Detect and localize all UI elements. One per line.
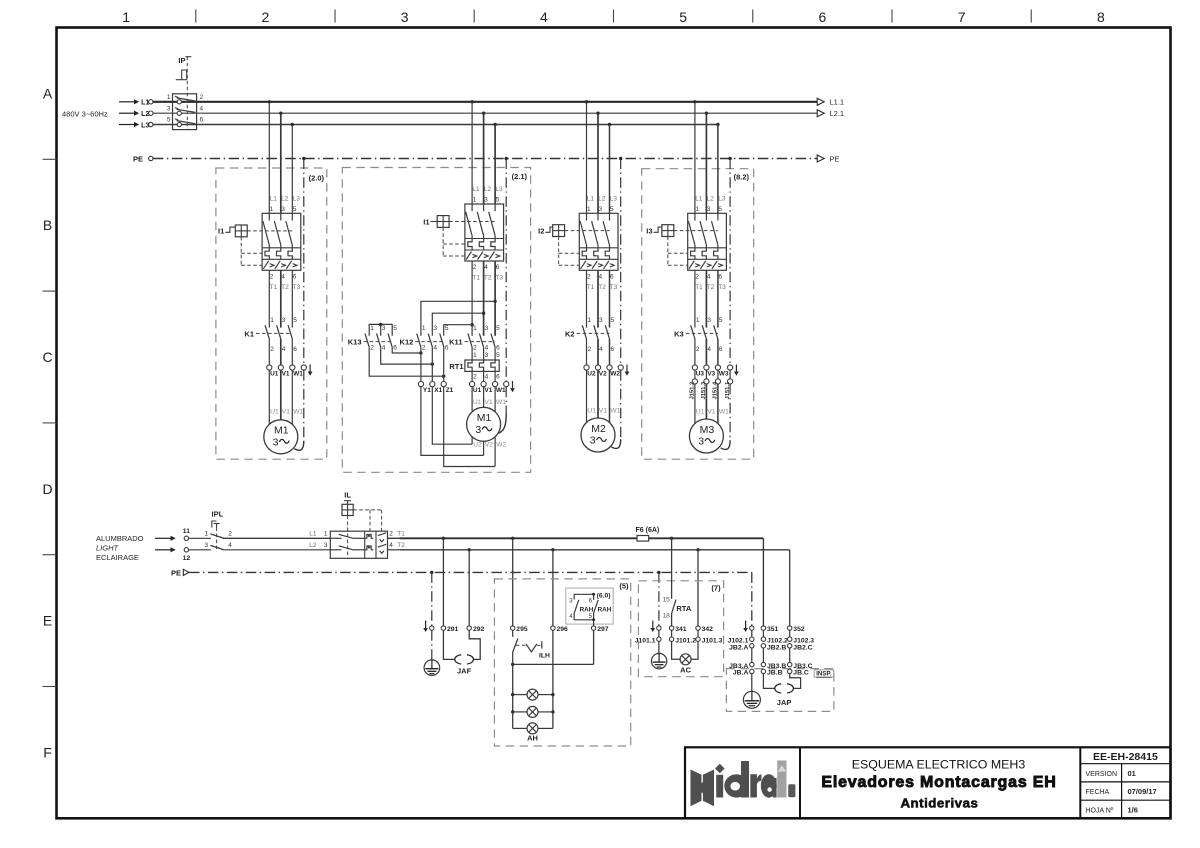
svg-text:2: 2 (389, 530, 393, 537)
svg-text:I3: I3 (646, 227, 652, 236)
svg-text:1: 1 (696, 317, 700, 324)
svg-text:3: 3 (282, 317, 286, 324)
node T2 to K12 pole2 (482, 312, 485, 315)
svg-text:ALUMBRADO: ALUMBRADO (96, 534, 144, 543)
svg-text:JB.B: JB.B (767, 670, 783, 677)
terminal J101.1 (657, 637, 661, 641)
svg-text:L3: L3 (718, 195, 726, 202)
svg-text:4: 4 (282, 346, 286, 353)
breaker I3 magnetic elements (689, 261, 723, 269)
breaker I3 terminal labels (695, 195, 726, 290)
svg-text:(6.0): (6.0) (597, 592, 611, 599)
svg-text:296: 296 (557, 626, 569, 633)
earth arrow branch4 (734, 365, 739, 376)
terminal 341 (669, 626, 673, 630)
PE triangle arrow lighting (183, 569, 189, 575)
labels U2 V2 W2 branch3 (587, 371, 620, 378)
terminal earth JAF (430, 626, 434, 630)
disconnect switch IP box (173, 94, 197, 130)
svg-text:6: 6 (611, 346, 615, 353)
wire PE to motor M2 frame (611, 370, 621, 448)
svg-text:1: 1 (270, 206, 274, 213)
svg-text:L3: L3 (141, 122, 149, 129)
svg-text:351: 351 (767, 626, 779, 633)
terminal L1 supply (149, 100, 153, 104)
contactor K13 label and link (348, 338, 392, 347)
svg-text:480V 3~60Hz: 480V 3~60Hz (62, 110, 108, 119)
breaker I2 thermal elements (582, 248, 609, 259)
wires J151 to motor M3 (695, 384, 718, 424)
svg-text:JB.C: JB.C (793, 670, 809, 677)
svg-text:K1: K1 (244, 329, 254, 338)
node K12 pole1 lower (419, 351, 422, 354)
svg-text:2: 2 (587, 273, 591, 280)
terminal PE supply (149, 156, 153, 160)
svg-text:4: 4 (200, 105, 204, 112)
breaker I3 handle link dashes (668, 231, 718, 266)
node L1 tap branch 3 (585, 100, 588, 103)
svg-text:6: 6 (496, 264, 500, 271)
RT1 pin labels (473, 352, 500, 381)
terminal V3 branch4 (704, 365, 709, 370)
svg-text:3: 3 (433, 325, 437, 332)
node K12 pole3 lower (442, 375, 445, 378)
svg-text:5: 5 (718, 206, 722, 213)
title table values (1128, 769, 1157, 815)
svg-text:(2.0): (2.0) (309, 174, 325, 183)
wire L1 to breaker I1 (268, 102, 270, 214)
switch ILH contact (513, 630, 518, 664)
terminal W3 branch4 (715, 365, 720, 370)
svg-text:2: 2 (422, 344, 426, 351)
terminal JB2.A (750, 644, 754, 648)
svg-text:W2: W2 (496, 442, 506, 449)
input arrow terminal 12 (155, 547, 176, 552)
svg-text:L1: L1 (141, 100, 149, 107)
wires columns rows3-4 (752, 648, 790, 662)
svg-text:1: 1 (205, 530, 209, 537)
terminal Z1 (441, 382, 446, 387)
svg-text:5: 5 (393, 325, 397, 332)
wire IPL to IL L2 (223, 549, 330, 551)
wire L3 to breaker I3 (717, 125, 719, 214)
svg-text:(8.2): (8.2) (734, 173, 750, 182)
svg-text:8: 8 (1097, 9, 1105, 25)
earth arrow terminal J101.1 (650, 621, 655, 633)
switch ILH actuator (516, 641, 550, 659)
wire PE to motor M1 branch2 frame (498, 387, 507, 434)
svg-text:JB2.B: JB2.B (767, 644, 786, 651)
wire T2 breaker to K1 (280, 270, 282, 327)
wire L2 bus (153, 112, 817, 114)
svg-text:V2: V2 (485, 442, 494, 449)
wire to earth symbol JAF dash-dot (431, 630, 433, 660)
contactor K1 contacts (265, 325, 292, 339)
top ruler ticks (196, 10, 1031, 23)
svg-text:U1: U1 (270, 409, 279, 416)
svg-text:342: 342 (702, 626, 714, 633)
svg-text:T2: T2 (281, 284, 289, 291)
svg-text:2: 2 (262, 9, 270, 25)
svg-text:V1: V1 (599, 408, 608, 415)
node L2 tap branch 3 (596, 112, 599, 115)
svg-text:6: 6 (200, 117, 204, 124)
wire box7 earth drop dash-dot (658, 572, 660, 625)
svg-text:3: 3 (324, 542, 328, 549)
wire 12 to IPL (189, 549, 211, 551)
left ruler letters A-F (42, 85, 52, 760)
svg-text:RAH: RAH (598, 606, 612, 613)
contactor K11 pin labels (473, 325, 500, 351)
box (5) dashed (494, 579, 630, 746)
earth arrow terminal JAF (423, 621, 428, 633)
motor M3 3~ (689, 419, 723, 453)
wire PE drop branch1 dash-dot (303, 159, 305, 365)
terminal JB.A (750, 669, 754, 673)
breaker I1 branch2 handle (431, 216, 450, 228)
wire terminal V1 to motor M1 (280, 370, 282, 420)
wire T2 down branch2 (483, 261, 485, 336)
svg-text:2: 2 (695, 273, 699, 280)
node L2 tap branch 1 (279, 112, 282, 115)
svg-text:3: 3 (485, 325, 489, 332)
wire L3 bus (153, 124, 718, 126)
svg-text:3: 3 (707, 206, 711, 213)
wire L3 to breaker I2 (609, 125, 611, 214)
node L1 tap branch 4 (693, 100, 696, 103)
svg-text:L2: L2 (281, 195, 289, 202)
svg-text:2: 2 (270, 346, 274, 353)
terminal 295 (511, 626, 515, 630)
svg-text:K13: K13 (348, 338, 362, 347)
svg-text:T1: T1 (587, 284, 595, 291)
svg-text:3: 3 (599, 317, 603, 324)
wire T3 jog to K12 pole1 (421, 301, 495, 336)
node K12 pole2 lower (431, 362, 434, 365)
svg-text:6: 6 (393, 344, 397, 351)
input arrow L3 (119, 122, 149, 129)
thermal relay RT1 elements (468, 360, 495, 371)
terminal JB.B (761, 669, 765, 673)
wire K13 pole3 to K12 pole1 (392, 347, 421, 353)
svg-text:B: B (43, 217, 52, 233)
terminal JB2.B (761, 644, 765, 648)
breaker I1 pole contacts (263, 213, 292, 248)
IL test elements (365, 533, 387, 554)
breaker I2 box (579, 213, 618, 270)
svg-text:3: 3 (273, 436, 279, 448)
svg-text:3: 3 (205, 542, 209, 549)
wire 291 drop (442, 538, 444, 625)
lamp AC (672, 641, 698, 659)
svg-text:M3: M3 (700, 424, 715, 436)
wire T3 breaker I2 to K2 (609, 270, 611, 327)
svg-text:T2: T2 (484, 275, 492, 282)
node L3 tap branch 1 (291, 123, 294, 126)
svg-text:T3: T3 (718, 284, 726, 291)
svg-text:T1: T1 (270, 284, 278, 291)
wire 342 drop (697, 550, 699, 626)
svg-text:LIGHT: LIGHT (96, 543, 120, 552)
terminal 12 (184, 548, 188, 552)
svg-text:2: 2 (696, 346, 700, 353)
svg-text:5: 5 (445, 325, 449, 332)
contactor K2 label and link (565, 329, 609, 338)
labels motor terminals U2 V2 W2 branch2 (473, 442, 506, 449)
labels Y1 X1 Z1 (423, 387, 454, 394)
svg-text:E: E (43, 613, 52, 629)
wire L2 to breaker I1 branch2 (483, 113, 485, 204)
svg-text:2: 2 (473, 264, 477, 271)
terminal 352 (788, 626, 792, 630)
svg-text:01: 01 (1128, 769, 1136, 778)
IL output wires (388, 538, 401, 550)
contactor K12 label and link (400, 338, 444, 347)
svg-text:W1: W1 (496, 399, 506, 406)
terminal V1 branch2 (481, 382, 486, 387)
terminal J102.1 (750, 637, 754, 641)
svg-text:INSP.: INSP. (816, 671, 832, 678)
svg-text:2: 2 (270, 273, 274, 280)
svg-text:1: 1 (422, 325, 426, 332)
svg-text:RT1: RT1 (449, 362, 463, 371)
svg-text:1: 1 (370, 325, 374, 332)
terminal U1 branch1 (267, 365, 272, 370)
breaker I2 pole contacts (580, 213, 609, 248)
node PE tap branch4 (728, 157, 731, 160)
svg-text:7: 7 (958, 9, 966, 25)
svg-text:IL: IL (344, 491, 351, 500)
svg-text:07/09/17: 07/09/17 (1128, 787, 1157, 796)
contactor K13 contacts (365, 334, 392, 348)
node L3 tap branch 3 (608, 123, 611, 126)
svg-text:T3: T3 (495, 275, 503, 282)
motor M1 3~ (264, 420, 298, 454)
wires column pairs row2 (752, 630, 790, 637)
wire K1 pole3 to terminal W1 (291, 339, 293, 365)
terminal J151.3 (704, 379, 709, 384)
motor M1 3~ (467, 407, 501, 441)
input arrow terminal 11 (155, 536, 176, 541)
arrow L1.1 outgoing (817, 98, 844, 107)
RAH left contact (569, 598, 593, 620)
labels U1 V1 W1 branch2 (473, 387, 506, 394)
svg-text:ILH: ILH (539, 653, 550, 660)
svg-text:L3: L3 (293, 195, 301, 202)
wire JB.A to earth symbol (751, 674, 753, 692)
IP link dashed line (186, 57, 188, 130)
svg-text:4: 4 (228, 542, 232, 549)
wire PE drop branch2 dash-dot (505, 159, 507, 382)
input arrow L1 (119, 99, 149, 106)
wire motor W2 to Z1 (444, 387, 495, 467)
svg-text:3: 3 (484, 197, 488, 204)
svg-text:L2.1: L2.1 (830, 109, 845, 118)
svg-text:V3: V3 (707, 371, 715, 378)
breaker I1 magnetic elements (263, 261, 297, 269)
wire L1 to breaker I2 (586, 102, 588, 214)
wire K12 pole3 to terminal Z1 (443, 347, 445, 381)
svg-text:I1: I1 (218, 227, 224, 236)
terminal 296 (551, 626, 555, 630)
wires K2 to terminals (587, 339, 610, 365)
svg-text:JAF: JAF (457, 666, 472, 675)
wire T2 bus (400, 550, 790, 626)
wire K1 pole1 to terminal U1 (268, 339, 270, 365)
svg-text:W1: W1 (719, 408, 729, 415)
svg-text:2: 2 (370, 344, 374, 351)
wire T2 breaker I2 to K2 (597, 270, 599, 327)
svg-text:(7): (7) (711, 583, 721, 592)
wire 292 to socket JAF (469, 630, 480, 659)
svg-text:Elevadores Montacargas EH: Elevadores Montacargas EH (821, 774, 1056, 791)
breaker I3 thermal elements (691, 248, 718, 259)
svg-text:L3: L3 (610, 195, 618, 202)
svg-text:3: 3 (698, 436, 704, 448)
terminal PE branch4 (728, 365, 733, 370)
branch box (2.1) (342, 168, 530, 473)
svg-text:JB2.A: JB2.A (729, 644, 748, 651)
lamp AH 1 (513, 694, 553, 696)
labels ALUMBRADO LIGHT ECLAIRAGE (96, 534, 144, 562)
terminal J102.3 (788, 637, 792, 641)
contact RTA (663, 538, 692, 626)
wires K3 to terminals (695, 339, 718, 365)
wire L2 to breaker I3 (705, 113, 707, 213)
node star bridge (379, 323, 382, 326)
wire 291 to socket JAF (443, 630, 454, 659)
arrow PE outgoing (817, 154, 839, 163)
RAH top bar (574, 592, 610, 599)
node L3 tap branch 4 (716, 123, 719, 126)
wire terminal U1 to motor M1 (268, 370, 270, 424)
left ruler ticks (43, 159, 57, 686)
svg-text:4: 4 (433, 344, 437, 351)
breaker I1 handle (225, 225, 247, 237)
wire motor V2 to Y1 (421, 387, 484, 456)
wires between terminal rows branch4 (695, 370, 718, 379)
node PE tap earth JAF (430, 571, 433, 574)
svg-text:3: 3 (167, 105, 171, 112)
svg-text:ESQUEMA ELECTRICO MEH3: ESQUEMA ELECTRICO MEH3 (852, 757, 1026, 771)
svg-text:V1: V1 (282, 409, 291, 416)
node L2 tap branch 4 (705, 112, 708, 115)
wire JB.B to socket JAP (763, 674, 775, 689)
wire T1 jog to K12 pole3 (444, 325, 472, 336)
arrow L2.1 outgoing (817, 109, 844, 118)
svg-text:3: 3 (590, 435, 596, 447)
terminal J151.2 (692, 379, 697, 384)
earth arrow branch1 (308, 365, 313, 376)
title block outer (685, 747, 1171, 818)
labels U3 V3 W3 branch4 (696, 371, 729, 378)
breaker I1 thermal elements (265, 248, 292, 259)
svg-text:5: 5 (679, 9, 687, 25)
svg-text:FECHA: FECHA (1086, 789, 1110, 796)
svg-text:A: A (43, 85, 53, 101)
terminal PE branch3 (618, 365, 623, 370)
svg-text:1: 1 (473, 197, 477, 204)
svg-text:HOJA Nº: HOJA Nº (1086, 807, 1114, 814)
switch IP pole contacts (175, 96, 196, 126)
svg-text:T1: T1 (472, 275, 480, 282)
svg-text:3: 3 (475, 424, 481, 436)
svg-text:I1: I1 (423, 217, 429, 226)
terminal 342 (696, 626, 700, 630)
node L3 tap branch 2 (493, 123, 496, 126)
svg-text:4: 4 (599, 346, 603, 353)
svg-text:W2: W2 (610, 371, 620, 378)
svg-text:M1: M1 (274, 425, 289, 437)
terminal J151.1 (728, 379, 733, 384)
svg-text:K11: K11 (449, 338, 462, 347)
svg-text:J102.3: J102.3 (793, 637, 814, 644)
wire L2 to breaker I1 (280, 113, 282, 213)
svg-text:4: 4 (540, 9, 548, 25)
svg-text:292: 292 (473, 626, 485, 633)
svg-text:11: 11 (183, 528, 190, 535)
svg-text:T2: T2 (707, 284, 715, 291)
INSP label box (814, 670, 834, 678)
wire JB.C to socket JAP (790, 674, 801, 689)
wire J101.1 to earth symbol (658, 641, 660, 653)
svg-text:3: 3 (382, 325, 386, 332)
svg-text:L1: L1 (270, 195, 278, 202)
svg-text:V1: V1 (484, 387, 492, 394)
contactor K3 pin labels (696, 317, 723, 353)
earth electrode symbol box7 (651, 653, 666, 668)
wire PE bus dash-dot (153, 158, 817, 160)
svg-text:6: 6 (293, 273, 297, 280)
labels U1 V1 W1 branch1 (270, 371, 303, 378)
terminal PE branch1 (301, 365, 306, 370)
terminal PE branch2 (504, 382, 509, 387)
wire 11 to IPL (189, 537, 211, 539)
wire L1 to breaker I1 branch2 (471, 102, 473, 204)
breaker I3 handle (654, 225, 674, 237)
svg-text:PE: PE (171, 568, 181, 577)
box (7) dashed (638, 581, 723, 677)
contactor K11 label and link (449, 338, 495, 347)
svg-text:AC: AC (680, 665, 691, 674)
lamp AH 3 (513, 727, 553, 729)
node PE tap branch1 (302, 157, 305, 160)
svg-text:L1.1: L1.1 (830, 98, 845, 107)
svg-text:1: 1 (473, 352, 477, 359)
node L1 tap branch 2 (470, 100, 473, 103)
contactor K1 pin labels (270, 317, 297, 353)
breaker I1 branch2 terminal labels (472, 186, 503, 282)
wire K1 pole2 to terminal V1 (280, 339, 282, 365)
svg-text:L2: L2 (484, 186, 492, 193)
svg-text:C: C (42, 349, 52, 365)
svg-text:L1: L1 (695, 195, 703, 202)
labels J151 connector rotated (690, 381, 731, 400)
terminal earth box7 (657, 626, 661, 630)
wire PE between terminals branch4 (729, 370, 731, 379)
labels motor M2 terminals (587, 408, 620, 415)
terminal 351 (761, 626, 765, 630)
svg-text:T1: T1 (695, 284, 703, 291)
switch IPL link dashes (216, 528, 218, 552)
terminal L2 supply (149, 111, 153, 115)
contactor K2 pin labels (588, 317, 615, 353)
svg-text:5: 5 (610, 206, 614, 213)
svg-text:L3: L3 (495, 186, 503, 193)
terminal W2 branch3 (607, 365, 612, 370)
svg-text:U1: U1 (587, 408, 596, 415)
node T1 tap 295 (511, 537, 514, 540)
